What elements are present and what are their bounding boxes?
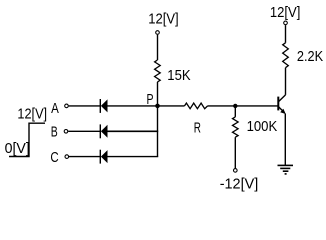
svg-text:R: R [194,119,201,136]
svg-text:12[V]: 12[V] [270,4,301,21]
terminal C [65,155,69,159]
wire 12V terminal to resistor 2.2K [285,25,287,43]
wire C terminal to diode D3 [69,156,100,158]
diode D2 [100,124,107,138]
wire A terminal to diode D1 [69,105,101,107]
input step waveform 0V to 12V [9,123,45,156]
wire 100K to -12V terminal [234,137,236,168]
emitter arrow [280,109,286,114]
wire B terminal to diode D2 [68,130,100,132]
resistor 100K [233,117,239,137]
svg-text:100K: 100K [247,118,278,135]
wire emitter to ground [284,114,286,166]
resistor 2.2K [283,43,289,68]
junction node P [155,104,160,109]
svg-text:12[V]: 12[V] [148,11,179,28]
terminal 12V top middle [156,31,160,35]
svg-text:P: P [147,91,154,108]
terminal B [64,130,68,134]
ground [278,165,294,174]
wire 15K to node P [157,82,159,106]
wire diode D1 to node P row [108,105,185,107]
transistor Q1 (NPN) [278,95,285,114]
svg-text:15K: 15K [167,67,190,84]
svg-text:12[V]: 12[V] [17,106,47,123]
resistor R (horizontal) [185,103,208,109]
wire 12V terminal to resistor 15K [157,35,159,60]
wire diode D3 to bus [108,156,159,158]
svg-text:0[V]: 0[V] [5,140,30,157]
svg-text:2.2K: 2.2K [297,48,323,65]
wire 2.2K to collector [285,68,287,95]
svg-text:C: C [50,149,58,166]
terminal A [65,104,69,108]
wire resistor R to base node [208,105,278,107]
junction base node [233,104,237,108]
svg-text:A: A [51,100,59,117]
diode D1 (cathode bar left, anode right) [100,99,107,113]
emitter lead [278,107,284,113]
base bar [277,97,279,111]
terminal -12V [234,169,238,173]
wire base node to resistor 100K [234,106,236,117]
wire diode D2 to bus [108,130,159,132]
svg-text:-12[V]: -12[V] [220,176,259,193]
wire vertical bus diodes to node P [157,106,159,157]
collector lead [278,95,285,102]
svg-text:B: B [51,124,58,141]
resistor 15K [155,60,161,82]
diode D3 [100,150,107,164]
terminal 12V top right [284,21,288,25]
